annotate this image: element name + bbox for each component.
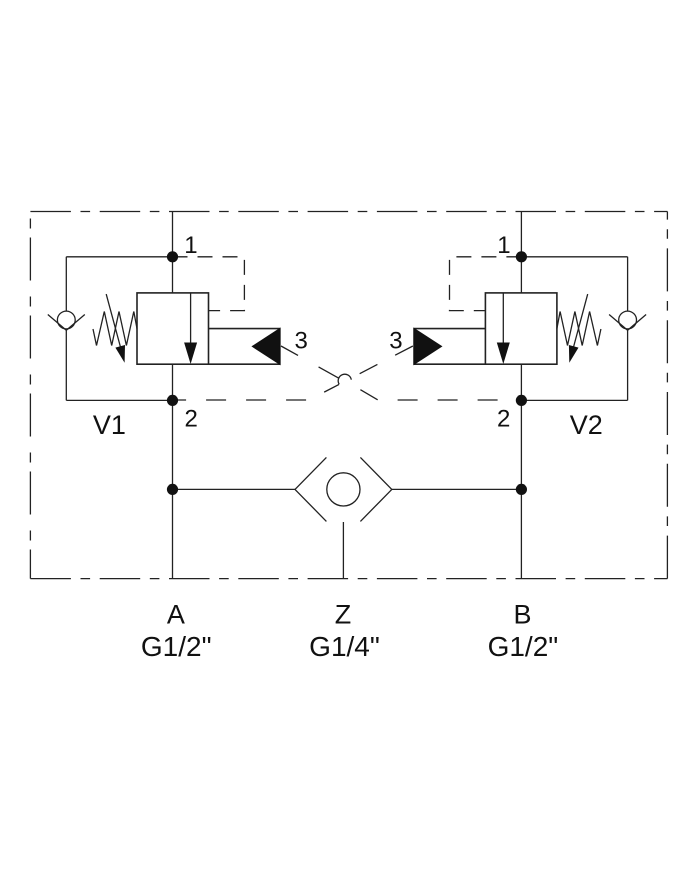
svg-text:3: 3 xyxy=(389,327,402,354)
wire: V1 bypass bottom horizontal xyxy=(66,399,172,401)
shuttle valve ball circle xyxy=(327,473,360,506)
svg-text:1: 1 xyxy=(184,232,197,259)
svg-text:1: 1 xyxy=(497,232,510,259)
V1 spring xyxy=(93,312,137,346)
wire: port Z vertical line xyxy=(342,522,344,579)
enclosure dash-dot boundary xyxy=(30,211,667,213)
node: B / shuttle junction xyxy=(516,484,527,495)
wire: port A vertical line xyxy=(172,212,174,579)
svg-text:3: 3 xyxy=(295,327,308,354)
hop arc over crossing xyxy=(338,374,351,384)
node: A / shuttle junction xyxy=(167,484,178,495)
svg-text:Z: Z xyxy=(335,600,352,630)
V2 internal flow arrow xyxy=(502,293,504,345)
wire: V1 bypass left vertical xyxy=(65,257,67,401)
svg-text:B: B xyxy=(513,600,531,630)
pilot line L1: V1 pilot to node 2 of V2 (dashed, with hop) xyxy=(281,346,339,378)
wire: V2 bypass top horizontal xyxy=(521,256,627,258)
svg-text:A: A xyxy=(167,600,185,630)
shuttle valve diamond xyxy=(295,457,326,489)
valve V2 body box xyxy=(485,293,557,364)
node: V2 port 1 junction xyxy=(516,251,527,262)
V1 pilot box xyxy=(209,328,281,330)
pilot line L2: V2 pilot to node 2 of V1 (dashed) xyxy=(173,346,413,400)
svg-text:G1/4": G1/4" xyxy=(309,631,380,662)
shuttle valve: left connection wire xyxy=(173,488,296,490)
crossing hop white mask xyxy=(338,375,351,388)
V1 pilot triangle xyxy=(253,329,280,365)
svg-text:G1/2": G1/2" xyxy=(488,631,559,662)
svg-text:G1/2": G1/2" xyxy=(141,631,212,662)
node: V2 port 2 junction xyxy=(516,395,527,406)
wire: V2 bypass bottom horizontal xyxy=(521,399,627,401)
svg-text:V1: V1 xyxy=(93,410,126,440)
V1 internal flow arrow xyxy=(190,293,192,345)
check valve CV2 (bypass of V2) xyxy=(609,311,646,330)
V2 pilot box xyxy=(414,328,486,330)
node: V1 port 1 junction xyxy=(167,251,178,262)
V2 spring xyxy=(557,312,601,346)
svg-text:V2: V2 xyxy=(570,410,603,440)
check valve CV1 (bypass of V1) xyxy=(48,311,85,330)
wire: port B vertical line xyxy=(520,212,522,579)
node: V1 port 2 junction xyxy=(167,395,178,406)
pilot line: V2 internal pilot (dashed loop from node 1) xyxy=(450,257,522,311)
shuttle valve: right connection wire xyxy=(392,488,522,490)
V2 spring adjustment arrow xyxy=(573,294,588,349)
valve V1 body box xyxy=(137,293,209,364)
V2 pilot triangle xyxy=(414,329,441,365)
svg-text:2: 2 xyxy=(497,406,510,433)
pilot line: V1 internal pilot (dashed loop from node 1) xyxy=(173,257,245,311)
wire: V2 bypass right vertical xyxy=(627,257,629,401)
svg-text:2: 2 xyxy=(185,405,198,432)
V1 spring adjustment arrow xyxy=(106,294,121,349)
wire: V1 bypass top horizontal xyxy=(66,256,172,258)
